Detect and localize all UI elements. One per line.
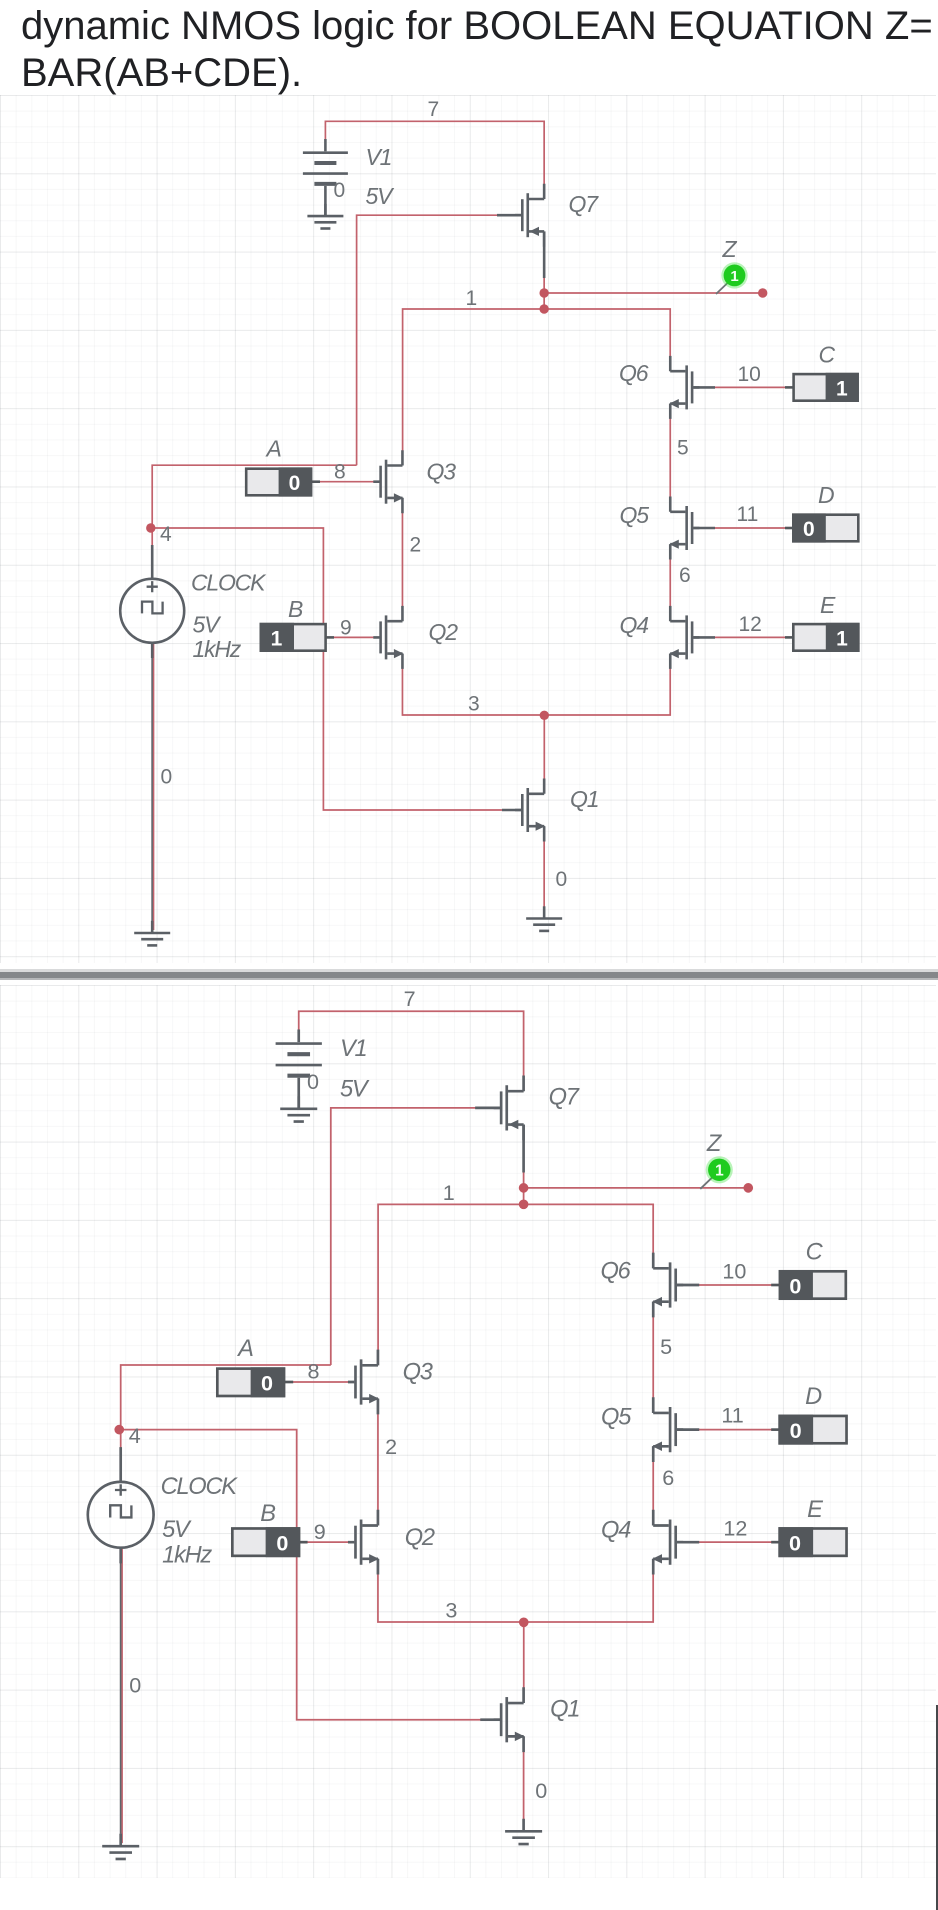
svg-text:1: 1 [271,628,283,651]
switch A state 0 [279,467,313,496]
svg-text:0: 0 [276,1530,288,1555]
title text [21,3,938,97]
svg-text:1: 1 [836,628,848,651]
switch A state 0 [251,1367,286,1397]
switch E state 0 [778,1527,813,1557]
svg-text:0: 0 [789,1530,801,1555]
switch D state 0 [778,1415,813,1445]
section divider [0,969,938,980]
svg-text:0: 0 [261,1370,273,1395]
svg-text:0: 0 [289,472,301,495]
svg-text:0: 0 [789,1273,801,1298]
switch C state 1 [826,373,859,402]
svg-text:0: 0 [803,518,815,541]
switch B state 0 [266,1527,301,1557]
switch E state 1 [826,623,860,652]
right scrollbar [936,1705,938,1910]
switch D state 0 [792,513,826,542]
svg-text:1: 1 [836,378,848,401]
svg-text:0: 0 [790,1418,802,1443]
switch C state 0 [779,1270,813,1300]
switch B state 1 [260,623,295,652]
